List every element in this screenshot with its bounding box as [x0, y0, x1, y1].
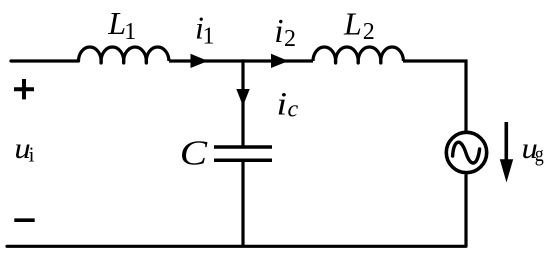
svg-text:g: g	[535, 143, 544, 167]
bottom rail wire	[7, 245, 466, 248]
svg-text:i: i	[277, 85, 288, 122]
svg-text:1: 1	[203, 24, 215, 50]
current arrow i1	[191, 54, 209, 68]
inductor L1 cusp stubs	[101, 61, 146, 63]
inductor L1	[79, 47, 169, 61]
svg-text:i: i	[274, 13, 283, 50]
svg-text:c: c	[288, 96, 299, 122]
ac source U1 circle	[446, 132, 486, 172]
inductor L2	[313, 47, 403, 61]
svg-text:2: 2	[363, 19, 375, 45]
wire L2 to top-right corner and down	[403, 61, 466, 132]
svg-text:2: 2	[284, 26, 296, 52]
current arrow i2	[271, 54, 289, 68]
svg-text:L: L	[343, 5, 362, 41]
voltage arrow ug	[504, 122, 508, 161]
wire source bottom to bottom rail	[464, 174, 467, 246]
svg-text:1: 1	[124, 19, 136, 45]
minus sign	[14, 218, 34, 222]
ac source sine	[453, 142, 480, 163]
plus sign	[14, 79, 34, 99]
wire L1 to node A	[169, 59, 243, 62]
svg-text:i: i	[29, 143, 35, 167]
wire node A down to capacitor	[241, 59, 244, 147]
svg-text:C: C	[180, 134, 208, 173]
wire capacitor to bottom rail	[241, 160, 244, 246]
capacitor C top plate	[214, 145, 272, 149]
inductor L2 cusp stubs	[336, 61, 381, 63]
current arrow ic	[236, 89, 249, 106]
node A wire to L2	[243, 59, 313, 62]
wire top-left segment	[11, 59, 79, 62]
svg-text:L: L	[107, 5, 126, 41]
capacitor C bottom plate	[214, 159, 272, 163]
